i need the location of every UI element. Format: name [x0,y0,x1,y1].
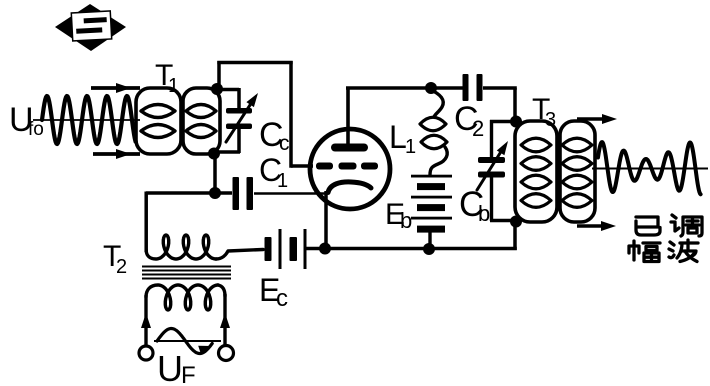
svg-text:U: U [157,348,183,386]
svg-text:2: 2 [472,116,484,141]
svg-text:3: 3 [545,109,556,131]
svg-text:1: 1 [277,170,288,192]
svg-text:2: 2 [116,256,127,278]
svg-text:F: F [181,362,196,386]
svg-text:1: 1 [168,75,179,97]
svg-text:c: c [276,285,288,312]
svg-text:fo: fo [28,119,44,140]
svg-text:b: b [400,208,412,233]
svg-text:1: 1 [405,136,416,158]
svg-text:b: b [478,201,490,226]
